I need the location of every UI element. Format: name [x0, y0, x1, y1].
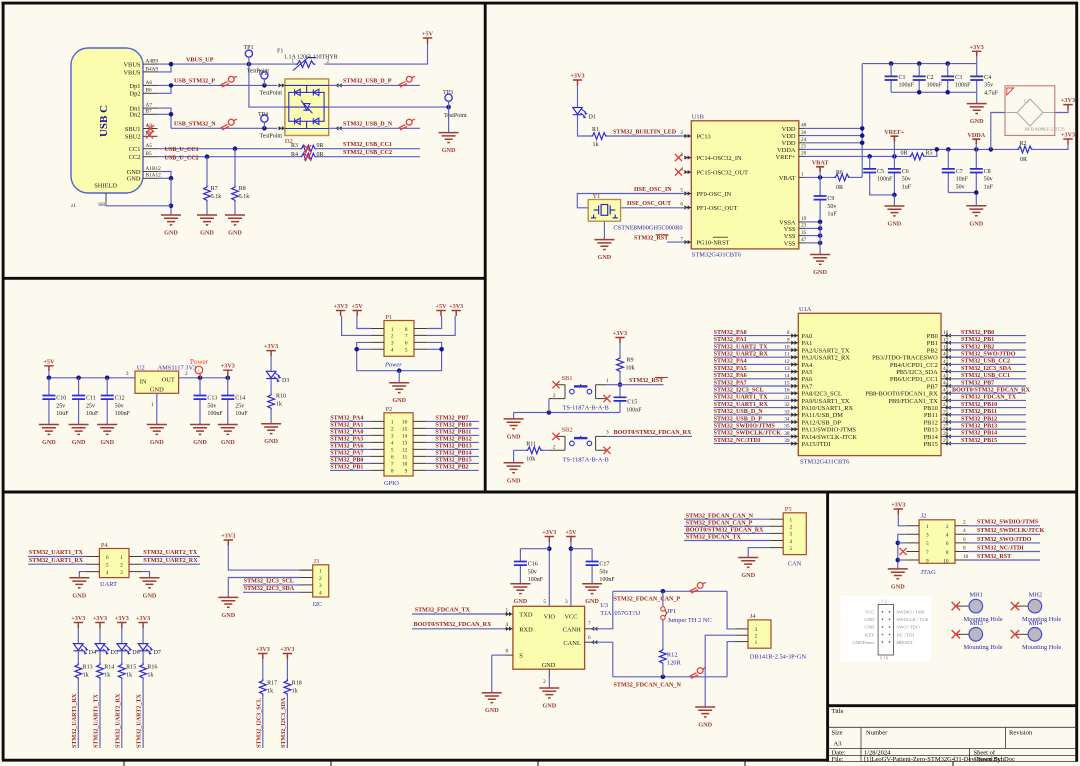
U1A pin 35 PA13/SWDIO-JTMS [784, 424, 856, 434]
resistor R1 1k [591, 133, 608, 140]
junction C14 [226, 376, 231, 381]
no-connect SBU1 [147, 125, 154, 132]
svg-text:VSS: VSS [784, 240, 796, 247]
svg-text:3: 3 [565, 599, 568, 605]
P5 pin 2 [770, 525, 793, 531]
junction TP3 [446, 105, 451, 110]
svg-text:D3: D3 [282, 378, 289, 384]
D2 internal diodes [285, 85, 329, 128]
wire +3V3 to R9 [619, 343, 621, 356]
capacitor C1 [885, 64, 915, 93]
svg-text:J2: J2 [921, 513, 927, 520]
test point TP4 [261, 115, 268, 122]
svg-text:GND: GND [698, 722, 712, 729]
svg-text:I2C: I2C [313, 601, 323, 608]
junction C11 [76, 376, 81, 381]
wire STM32_SWDIO/JTMS [968, 525, 1040, 527]
U1A pin 16 PB0 [927, 330, 949, 340]
svg-text:STM32_PA4: STM32_PA4 [714, 359, 747, 365]
P5 pin 4 [770, 539, 793, 545]
junction VBUS [169, 62, 174, 67]
svg-text:TP4: TP4 [258, 112, 268, 118]
wire +3V3 to D5 [99, 628, 101, 644]
U1B pin 23 VSS [784, 223, 807, 233]
ground R7 [197, 215, 217, 237]
svg-text:STM32_PB11: STM32_PB11 [961, 409, 997, 415]
svg-text:SBU2: SBU2 [125, 134, 141, 141]
ground P4 right [140, 578, 160, 600]
wire VDD top rail [862, 63, 977, 65]
svg-text:STM32_UART1_RX: STM32_UART1_RX [29, 558, 84, 564]
U1B pin 47 VSS [784, 237, 807, 247]
svg-text:+3V3: +3V3 [334, 303, 348, 310]
svg-text:R13: R13 [83, 664, 93, 670]
svg-text:3: 3 [126, 371, 129, 377]
svg-text:1k: 1k [276, 402, 282, 408]
svg-text:U1B: U1B [692, 114, 704, 121]
wire VDDA to L1 [991, 113, 1005, 150]
wire P2 right STM32_PB13 [426, 448, 479, 450]
wire +3V3 to D4 [77, 628, 79, 644]
J1 pin A1B12 GND [127, 166, 162, 176]
svg-text:GND: GND [891, 583, 905, 590]
wire STM32_RST [667, 241, 686, 243]
svg-text:1: 1 [506, 607, 509, 613]
svg-text:R15: R15 [126, 664, 136, 670]
svg-text:PF1-OSC_OUT: PF1-OSC_OUT [697, 205, 738, 212]
ground C16 [510, 584, 530, 606]
svg-text:3: 3 [391, 434, 394, 440]
wire P2 right STM32_PB2 [426, 469, 479, 471]
resistor R18 1k [284, 679, 291, 696]
svg-text:1k: 1k [126, 672, 132, 678]
svg-text:PA15/JTDI: PA15/JTDI [802, 441, 831, 448]
svg-text:R18: R18 [292, 680, 302, 686]
power +5V USB [422, 31, 434, 44]
no-connect SBU2 [146, 131, 153, 138]
no-connect J2 pin7 [899, 548, 906, 555]
wire STM32_UART1_TX [28, 556, 86, 558]
wire S [492, 654, 505, 656]
svg-text:C5: C5 [877, 169, 884, 175]
svg-text:PA3/USART2_RX: PA3/USART2_RX [802, 355, 851, 362]
junction C7 [946, 147, 951, 152]
svg-text:10: 10 [963, 554, 969, 560]
svg-text:13: 13 [402, 441, 408, 447]
wire BOOT0 label [607, 435, 692, 437]
svg-text:STM32_FDCAN_TX: STM32_FDCAN_TX [961, 395, 1017, 401]
svg-text:GND: GND [514, 598, 528, 605]
D2 pin IO2 glyph [279, 126, 285, 130]
svg-text:1k: 1k [593, 142, 599, 148]
J1 pin B8 SBU2 [125, 131, 158, 141]
svg-text:4: 4 [106, 570, 109, 576]
wire STM32_SWDCLK/JTCK [968, 533, 1040, 535]
svg-text:A4B9: A4B9 [146, 59, 159, 65]
junction P1 right gnd [439, 347, 444, 352]
wire VDD 135.6 [805, 135, 862, 137]
svg-text:PA11/USB_DM: PA11/USB_DM [802, 412, 844, 419]
J1 pin B7 Dn2 [129, 109, 157, 119]
wire R11 left [514, 449, 526, 451]
resistor R2 0R [1017, 146, 1033, 153]
svg-text:C4: C4 [984, 75, 991, 81]
wire Dn1 elbow [158, 108, 172, 128]
svg-text:STM32_FDCAN_CAN_P: STM32_FDCAN_CAN_P [614, 597, 681, 603]
wire P2 left STM32_PA7 [330, 455, 371, 457]
wire STM32_UART2_TX [714, 349, 791, 351]
P4 pin 6/1 [86, 555, 142, 561]
svg-text:Drawn By:: Drawn By: [974, 756, 1003, 763]
svg-text:4: 4 [946, 533, 949, 539]
U1A pin 44 PB7 [927, 381, 949, 391]
wire P2 left STM32_PB1 [330, 469, 371, 471]
svg-text:35: 35 [801, 230, 807, 236]
svg-text:+3V3: +3V3 [570, 73, 584, 80]
RST overbar SB1 [655, 376, 668, 378]
svg-text:2: 2 [553, 393, 556, 399]
svg-text:VBUS: VBUS [123, 62, 140, 69]
svg-text:50v: 50v [984, 177, 993, 183]
svg-text:8: 8 [946, 550, 949, 556]
svg-text:#RESET: #RESET [897, 640, 914, 645]
push button SB2 TS-1187A [549, 430, 609, 451]
svg-text:+3V3: +3V3 [1061, 132, 1075, 139]
svg-text:STM32_UART2_TX: STM32_UART2_TX [143, 550, 198, 556]
svg-text:1: 1 [120, 555, 123, 561]
P4 pin 4/3 [86, 570, 142, 576]
svg-text:1: 1 [606, 378, 609, 384]
wire STM32_NC/JTDI [714, 443, 791, 445]
svg-text:GND: GND [970, 118, 984, 125]
U1A pin 17 PB1 [927, 337, 949, 347]
svg-text:STM32_I2C3_SCL: STM32_I2C3_SCL [256, 698, 262, 748]
svg-text:PB12: PB12 [924, 419, 938, 426]
svg-text:7: 7 [405, 334, 408, 340]
svg-text:+5V: +5V [435, 303, 447, 310]
ground U3 S [482, 693, 502, 715]
svg-text:8: 8 [506, 649, 509, 655]
wire S to gnd [491, 655, 493, 693]
P2 pin 7/10 [371, 462, 426, 468]
svg-text:STM32_SWDCLK/JTCK: STM32_SWDCLK/JTCK [977, 528, 1045, 534]
wire TP3 stem [448, 101, 450, 107]
mounting hole MH2 [1011, 592, 1062, 623]
wire HSE_OSC_IN [577, 194, 685, 208]
svg-text:R10: R10 [276, 394, 286, 400]
wire R6 to bus [849, 176, 862, 178]
svg-text:OUT: OUT [162, 377, 175, 384]
junction VDD bus 128.4 [860, 126, 865, 131]
wire J4 pin1 to CAN_N [727, 642, 735, 677]
wire +3V3 stem [976, 57, 978, 64]
svg-text:B6: B6 [146, 88, 153, 94]
resistor R9 10k [617, 356, 624, 373]
junction rail 947.7 [945, 61, 950, 66]
wire VSS 242.9 [805, 242, 820, 244]
svg-text:VSS: VSS [784, 226, 796, 233]
svg-text:STM32_PB1: STM32_PB1 [330, 465, 363, 471]
wire CC1 [158, 148, 301, 150]
svg-text:C9: C9 [827, 196, 834, 202]
U3 pin names [519, 612, 581, 669]
U1A pin 13 PA5 [784, 366, 812, 376]
svg-text:10nF: 10nF [956, 177, 969, 183]
wire VSS down [819, 222, 821, 255]
svg-text:2: 2 [391, 334, 394, 340]
wire USB_STM32_P [158, 84, 278, 86]
svg-text:STM32_FDCAN_CAN_N: STM32_FDCAN_CAN_N [614, 682, 682, 688]
svg-text:Revision: Revision [1009, 729, 1033, 736]
svg-text:CC2: CC2 [129, 154, 141, 161]
svg-text:8: 8 [391, 469, 394, 475]
J1 pin A4B9 VBUS [123, 59, 158, 69]
capacitor C15 [614, 385, 643, 414]
svg-text:GND: GND [72, 439, 86, 446]
svg-text:10uF: 10uF [56, 411, 69, 417]
svg-text:6: 6 [963, 537, 966, 543]
wire STM32_USB_D_N [329, 127, 420, 129]
wire P1 pin4 [357, 348, 371, 350]
wire L1 to +3V3 [1055, 110, 1068, 113]
junction VBAT [818, 175, 823, 180]
resistor R5 0R [909, 153, 926, 160]
svg-text:100nF: 100nF [899, 83, 915, 89]
svg-text:PA8/I2C3_SCL: PA8/I2C3_SCL [802, 391, 842, 398]
probe STM32_USB_D_P [399, 76, 416, 87]
wire P2 right STM32_PB15 [426, 462, 479, 464]
svg-text:19: 19 [801, 216, 807, 222]
svg-text:VDDA: VDDA [777, 147, 796, 154]
svg-text:VIO: VIO [544, 613, 556, 620]
P5 pin 1 [770, 518, 793, 524]
wire J1 gnd A [158, 172, 172, 179]
junction shield [169, 204, 174, 209]
junction J1 gnd [169, 176, 174, 181]
header P4 body [99, 549, 129, 578]
svg-text:+5V: +5V [43, 358, 55, 365]
LED D4 [74, 644, 89, 655]
svg-text:50v: 50v [207, 403, 216, 409]
wire to gnd C6 [893, 195, 895, 206]
junction R5 [935, 147, 940, 152]
fuse F1 polyfuse [277, 48, 338, 70]
wire D1 to R1 [578, 115, 591, 136]
svg-text:3: 3 [790, 532, 793, 538]
U1B pin 3 PC14-OSC32_IN [680, 152, 742, 162]
wire STM32_PA5 [714, 371, 791, 373]
svg-text:USB_STM32_P: USB_STM32_P [174, 79, 215, 85]
no-fit X R4 [304, 153, 311, 160]
svg-text:GND: GND [542, 703, 556, 710]
svg-text:VBAT: VBAT [812, 159, 830, 166]
svg-text:10uF: 10uF [235, 411, 248, 417]
svg-text:+3V3: +3V3 [256, 646, 270, 653]
svg-text:TestPoint: TestPoint [444, 113, 467, 119]
svg-text:CANH: CANH [563, 626, 581, 633]
svg-text:4: 4 [790, 539, 793, 545]
svg-text:R4: R4 [291, 152, 298, 158]
svg-text:3: 3 [120, 570, 123, 576]
wire RST label [620, 384, 664, 386]
svg-text:BOOT0/STM32_FDCAN_RX: BOOT0/STM32_FDCAN_RX [414, 622, 492, 628]
svg-text:Title: Title [832, 708, 844, 715]
svg-text:10k: 10k [526, 456, 535, 462]
J1 pin B4A9 VBUS [123, 66, 158, 76]
svg-text:TP3: TP3 [443, 90, 453, 96]
ground TP3 [439, 133, 459, 155]
svg-text:STM32_I2C3_SDA: STM32_I2C3_SDA [961, 366, 1012, 372]
svg-text:GND: GND [72, 592, 86, 599]
svg-text:PA9/USART1_TX: PA9/USART1_TX [802, 398, 850, 405]
resistor R13 1k [75, 663, 82, 680]
svg-text:+3V3: +3V3 [71, 615, 85, 622]
svg-text:2: 2 [391, 427, 394, 433]
RST overbar [656, 234, 669, 236]
U1A pin 43 PB6/UCPD1_CC1 [890, 373, 949, 383]
svg-text:C15: C15 [627, 399, 637, 405]
svg-text:5.1k: 5.1k [239, 194, 250, 200]
svg-text:GND: GND [150, 387, 164, 394]
wire R13 down [77, 678, 79, 748]
svg-text:6: 6 [405, 341, 408, 347]
svg-text:25v: 25v [235, 403, 244, 409]
svg-text:GND: GND [542, 662, 556, 669]
svg-text:VCC: VCC [564, 613, 577, 620]
svg-text:Y1: Y1 [593, 193, 601, 200]
power +5V U3 [565, 529, 577, 542]
wire D7 to R16 [142, 651, 144, 663]
wire STM32_I2C3_SCL [714, 392, 791, 394]
svg-text:SBU1: SBU1 [125, 126, 141, 133]
U1A pin 39 PA15/JTDI [784, 438, 830, 448]
wire STM32_UART2_RX [142, 563, 200, 565]
junction VDDA C8 [974, 147, 979, 152]
svg-text:4: 4 [506, 622, 509, 628]
P1 pin 2/7 [371, 334, 427, 340]
U1A pin 25 PB11 [924, 409, 949, 419]
wire I2C3_SDA [243, 591, 300, 593]
svg-text:C10: C10 [56, 396, 66, 402]
wire R14 down [99, 678, 101, 748]
ground C12 [97, 425, 117, 447]
svg-text:STM32_PA6: STM32_PA6 [714, 373, 747, 379]
svg-text:NC / TDI: NC / TDI [897, 632, 915, 637]
U1B pin 2 PC13 [680, 130, 710, 140]
P5 pin 5 [770, 546, 793, 552]
junction VCC [569, 546, 574, 551]
wire VDD 142.8 [805, 142, 862, 144]
svg-text:STM32_PB14: STM32_PB14 [435, 451, 471, 457]
wire R11 gnd [513, 450, 515, 463]
svg-text:PC14-OSC32_IN: PC14-OSC32_IN [697, 155, 742, 162]
svg-text:+3V3: +3V3 [449, 303, 463, 310]
wire VSS 228.4 [805, 227, 820, 229]
svg-text:C6: C6 [902, 169, 909, 175]
svg-text:C11: C11 [86, 396, 96, 402]
svg-text:STM32_PA1: STM32_PA1 [714, 337, 747, 343]
svg-text:+3V3: +3V3 [115, 615, 129, 622]
wire VDD bus vertical [861, 64, 863, 178]
power +3V3 P1 left [334, 303, 348, 316]
svg-text:100nF: 100nF [626, 407, 642, 413]
U1B pin 19 VSSA [779, 216, 806, 226]
resistor R3 0R [300, 145, 317, 152]
capacitor C4 [970, 64, 998, 97]
header J3 body [313, 565, 329, 597]
wire P1 pin2 [342, 316, 371, 335]
U1A pin 38 PA14/SWCLK-JTCK [784, 431, 857, 441]
ground SB1 [504, 419, 524, 441]
ground C10 [39, 425, 59, 447]
svg-text:1: 1 [755, 640, 758, 646]
wire D5 to R14 [99, 651, 101, 663]
U1A pin 46 PB9/FDCAN1_TX [888, 395, 948, 405]
power +3V3 VDD rail [970, 44, 984, 57]
wire D2 to TP3 [329, 106, 449, 108]
svg-text:STM32_USB_D_P: STM32_USB_D_P [714, 416, 763, 422]
wire STM32_PB14 [949, 435, 1026, 437]
svg-text:STM32_PA6: STM32_PA6 [330, 444, 363, 450]
svg-text:CC1: CC1 [129, 146, 141, 153]
svg-text:Power: Power [384, 362, 402, 369]
svg-text:+3V3: +3V3 [613, 330, 627, 337]
wire STM32_SWO/JTDO [949, 356, 1026, 358]
wire P2 left STM32_PA5 [330, 441, 371, 443]
wire 3V3 out [179, 377, 228, 379]
P2 pin 4/13 [371, 441, 426, 447]
svg-text:100nF: 100nF [955, 83, 971, 89]
svg-text:GND: GND [127, 176, 141, 183]
resistor R11 10k [526, 447, 543, 454]
svg-text:J4: J4 [750, 613, 756, 620]
svg-text:VDD: VDD [782, 133, 796, 140]
wire P1 pin3 gnd [357, 342, 400, 370]
ground C11 [69, 425, 89, 447]
svg-text:6: 6 [588, 635, 591, 641]
svg-text:1 2: 1 2 [881, 599, 887, 604]
svg-text:STM32_USB_CC1: STM32_USB_CC1 [343, 142, 392, 148]
svg-text:TS-1187A-B-A-B: TS-1187A-B-A-B [563, 405, 609, 412]
P2 pin 1/16 [371, 420, 426, 426]
ground VSS [810, 255, 830, 277]
svg-text:VREF+: VREF+ [776, 154, 796, 161]
svg-text:3: 3 [606, 430, 609, 436]
svg-text:P5: P5 [785, 506, 792, 513]
svg-text:PA7: PA7 [802, 383, 814, 390]
U1A pin 34 PA12/USB_DP [784, 417, 841, 427]
junction Dp [169, 83, 174, 88]
U1A pin 8 PA0 [787, 330, 812, 340]
wire J3 gnd [228, 577, 299, 579]
svg-text:R11: R11 [526, 441, 536, 447]
svg-text:STM32_UART2_TX: STM32_UART2_TX [137, 693, 143, 748]
svg-text:+3V3: +3V3 [1061, 97, 1075, 104]
svg-text:R2: R2 [1020, 141, 1027, 147]
svg-text:MH2: MH2 [1029, 592, 1043, 599]
wire +5V stem [48, 371, 50, 378]
svg-text:15: 15 [402, 427, 408, 433]
power VDDA [967, 132, 985, 144]
svg-text:RXD: RXD [519, 626, 533, 633]
svg-text:1: 1 [801, 172, 804, 178]
svg-text:PA0: PA0 [802, 333, 813, 340]
wire P1 pin5 [427, 348, 442, 350]
svg-text:R1: R1 [592, 127, 599, 133]
svg-text:PB15: PB15 [924, 441, 938, 448]
wire STM32_PB12 [949, 421, 1026, 423]
J1 pin B1A12 GND [127, 173, 162, 183]
